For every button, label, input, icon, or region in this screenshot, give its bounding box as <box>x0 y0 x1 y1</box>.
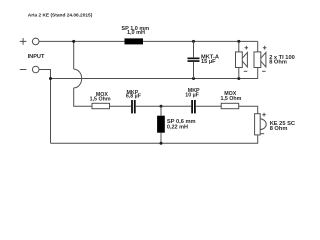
capacitor C2 MKP 6,8 µF plates <box>131 100 133 113</box>
plus sign input <box>20 38 27 45</box>
wire mid row seg1 <box>110 105 132 107</box>
node junction neg rail x50 <box>49 77 52 80</box>
capacitor C1 MKT-A 15 µF branch wires <box>193 41 195 78</box>
svg-text:6,8 µF: 6,8 µF <box>126 94 142 100</box>
wire top rail drop to speaker2 <box>257 41 259 52</box>
wire mid row seg4 to tweeter <box>239 106 258 114</box>
resistor R1 MOX 1,5 Ohm <box>92 103 110 108</box>
node junction top x193 <box>192 40 195 43</box>
svg-text:Aria 2 KE (Stand 24.06.2015): Aria 2 KE (Stand 24.06.2015) <box>28 12 93 18</box>
node junction neg rail x193 <box>192 77 195 80</box>
svg-text:10 µF: 10 µF <box>185 93 199 99</box>
wire branch from top junction with hop over negative rail <box>74 41 92 106</box>
node junction mid x161 <box>160 105 163 108</box>
node junction top x73 <box>72 40 75 43</box>
terminal + <box>32 38 39 45</box>
node junction bottom x161 <box>160 142 163 145</box>
wire bottom rail <box>51 135 258 143</box>
resistor R2 MOX 1,5 Ohm <box>221 103 239 108</box>
wire negative rail y78 <box>51 72 258 79</box>
svg-text:0,22 mH: 0,22 mH <box>167 124 188 130</box>
wire minus lead and left bus down <box>39 70 51 144</box>
terminal - <box>32 66 39 73</box>
minus sign input <box>20 69 27 71</box>
svg-text:15 µF: 15 µF <box>201 59 216 65</box>
svg-text:8 Ohm: 8 Ohm <box>269 60 287 66</box>
svg-text:1,0 mH: 1,0 mH <box>127 30 145 36</box>
svg-text:INPUT: INPUT <box>28 54 45 60</box>
wire top rail <box>39 40 258 42</box>
inductor L1 SP 1,0 mm / 1,0 mH <box>125 38 144 44</box>
speaker LS1 TI 100 <box>236 41 249 78</box>
capacitor C3 MKP 10 µF plates <box>191 100 193 113</box>
speaker LS3 KE 25 SC <box>255 113 267 135</box>
wire mid row seg3 <box>196 105 221 107</box>
speaker LS2 TI 100 <box>254 46 266 72</box>
svg-text:1,5 Ohm: 1,5 Ohm <box>90 97 111 103</box>
node junction top x238 <box>237 40 240 43</box>
svg-text:8 Ohm: 8 Ohm <box>270 126 288 132</box>
inductor L2 SP 0,6 mm / 0,22 mH branch wires <box>160 106 162 143</box>
node junction neg rail x238 <box>237 77 240 80</box>
capacitor C1 plates <box>188 58 200 60</box>
wire mid row seg2 <box>136 105 192 107</box>
svg-text:1,5 Ohm: 1,5 Ohm <box>220 96 241 102</box>
